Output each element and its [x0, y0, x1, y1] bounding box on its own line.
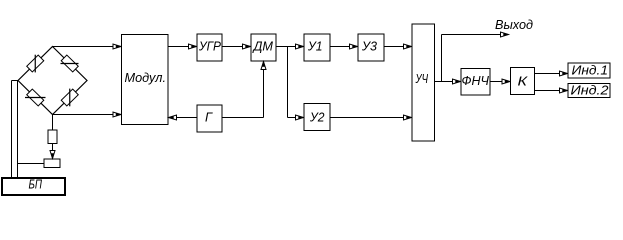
svg-text:Инд.1: Инд.1: [572, 63, 609, 78]
svg-text:Г: Г: [205, 110, 213, 125]
svg-text:У1: У1: [307, 39, 322, 54]
svg-text:БП: БП: [29, 177, 43, 192]
svg-text:ФНЧ: ФНЧ: [462, 73, 490, 88]
svg-text:У3: У3: [361, 39, 378, 54]
svg-text:УЧ: УЧ: [415, 71, 428, 86]
svg-text:УГР: УГР: [198, 39, 221, 54]
svg-text:У2: У2: [309, 110, 325, 125]
svg-text:Инд.2: Инд.2: [571, 83, 610, 98]
svg-text:К: К: [518, 74, 529, 89]
svg-text:Выход: Выход: [495, 17, 533, 32]
svg-text:Модул.: Модул.: [125, 70, 167, 85]
svg-text:ДМ: ДМ: [252, 39, 274, 54]
